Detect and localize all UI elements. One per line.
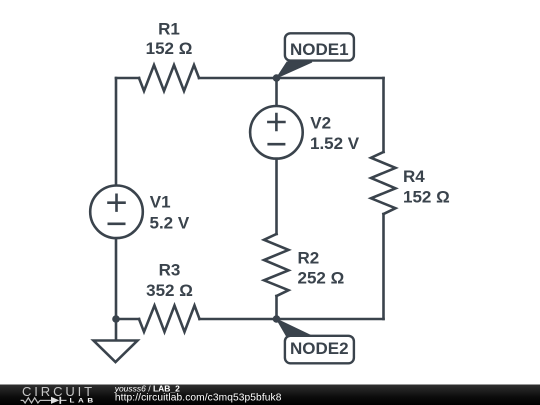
wire left vertical lower: [115, 238, 118, 319]
svg-text:LAB: LAB: [70, 396, 97, 404]
wire right vertical upper: [382, 78, 385, 152]
svg-text:R1: R1: [158, 20, 180, 39]
wire bottom-right horizontal: [277, 318, 384, 321]
svg-text:R4: R4: [403, 167, 425, 186]
wire R2 to NODE2: [275, 296, 278, 319]
resistor R2: [264, 234, 289, 296]
wire R3 to NODE2: [200, 318, 277, 321]
svg-text:152 Ω: 152 Ω: [403, 187, 450, 206]
svg-text:http://circuitlab.com/c3mq53p5: http://circuitlab.com/c3mq53p5bfuk8: [115, 393, 282, 404]
CircuitLab logo resistor zigzag: [21, 398, 40, 403]
NODE1 callout pointer: [277, 62, 313, 78]
svg-text:1.52 V: 1.52 V: [310, 134, 360, 153]
svg-text:NODE1: NODE1: [290, 40, 349, 59]
svg-text:R3: R3: [159, 261, 181, 280]
NODE2 label box: [285, 336, 354, 364]
svg-text:NODE2: NODE2: [290, 339, 349, 358]
svg-text:V2: V2: [310, 113, 331, 132]
svg-text:252 Ω: 252 Ω: [298, 269, 345, 288]
wire R1 to node NODE1: [199, 77, 277, 80]
svg-text:152 Ω: 152 Ω: [146, 39, 193, 58]
CircuitLab logo diode: [40, 399, 51, 401]
resistor R3: [139, 306, 200, 332]
resistor R4: [371, 152, 396, 214]
wire top-left horizontal: [116, 77, 139, 80]
svg-text:R2: R2: [298, 249, 320, 268]
node NODE2 dot: [273, 315, 281, 323]
voltage source V2: [250, 106, 303, 159]
NODE2 callout pointer: [277, 319, 315, 337]
resistor R1: [139, 65, 199, 91]
node junction dot left-bottom: [112, 315, 120, 323]
wire NODE1 to top-right corner: [277, 77, 384, 80]
node NODE1 dot: [273, 74, 281, 82]
svg-text:5.2 V: 5.2 V: [150, 213, 190, 232]
ground: [94, 341, 138, 363]
wire ground stem: [115, 319, 118, 341]
svg-text:352 Ω: 352 Ω: [146, 281, 193, 300]
wire middle upper: [275, 78, 278, 106]
voltage source V1: [90, 186, 143, 239]
wire middle V2 to R2: [275, 159, 278, 235]
wire bottom-left horizontal: [116, 318, 139, 321]
svg-text:V1: V1: [150, 193, 171, 212]
wire right vertical lower: [382, 214, 385, 319]
wire left vertical upper: [115, 78, 118, 186]
NODE1 label box: [285, 33, 354, 60]
